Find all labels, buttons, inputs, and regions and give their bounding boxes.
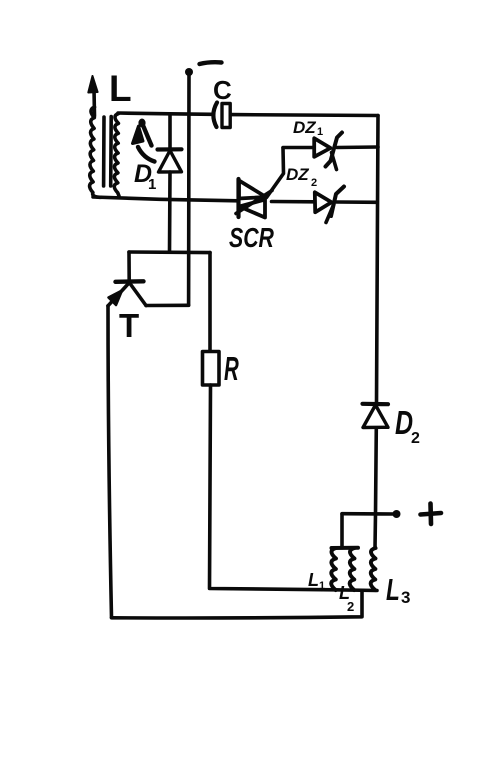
wire: main rail (SCR to DZ2)	[272, 200, 315, 204]
svg-text:2: 2	[347, 599, 354, 614]
svg-text:1: 1	[148, 176, 156, 193]
wire: right vertical (D2 to L3)	[375, 428, 376, 548]
svg-text:SCR: SCR	[229, 222, 274, 254]
transistor T	[108, 252, 146, 306]
transformer L: core	[102, 117, 106, 186]
wire: right vertical (top corner to D2)	[377, 116, 379, 404]
transformer L: primary winding	[90, 107, 101, 197]
wire: bottom return line	[112, 591, 363, 618]
wire: top rail right (capacitor to right corner)	[231, 113, 378, 118]
inductor L2	[350, 548, 355, 590]
zener DZ1	[314, 133, 342, 170]
wire: R bottom lead and coil bottom bar	[210, 385, 378, 591]
transformer L: primary winding arrow	[92, 89, 96, 116]
wire: emitter vertical	[108, 306, 112, 618]
transformer L: secondary winding	[114, 114, 119, 197]
resistor R	[203, 352, 220, 386]
svg-text:T: T	[119, 307, 139, 344]
inductor L3	[371, 548, 376, 590]
wire: plus line	[342, 512, 396, 516]
diode D2	[363, 404, 389, 428]
SCR	[236, 179, 272, 218]
wire: D1 lead down to base line	[168, 172, 172, 252]
annotation arrow near D1	[133, 119, 155, 162]
svg-text:R: R	[224, 350, 239, 387]
svg-text:2: 2	[411, 430, 420, 447]
svg-text:3: 3	[401, 588, 410, 607]
wire: DZ1 rail right	[337, 145, 378, 149]
negative terminal dot	[185, 68, 193, 76]
svg-text:DZ: DZ	[286, 165, 309, 184]
wire: main rail (transformer bottom through SCR area)	[93, 197, 238, 201]
diode D1	[158, 114, 182, 172]
svg-text:2: 2	[311, 177, 317, 189]
wire: base line corner down to R	[208, 253, 212, 352]
wire: main rail (DZ2 to right vertical)	[337, 200, 377, 204]
zener DZ2	[315, 187, 344, 223]
label minus	[200, 62, 222, 64]
inductor L1	[331, 548, 336, 590]
positive terminal dot	[393, 510, 401, 518]
wire: top rail left (transformer to capacitor)	[118, 113, 211, 114]
capacitor C	[213, 103, 217, 128]
wire: coil top bar	[332, 546, 359, 550]
svg-text:1: 1	[317, 126, 323, 138]
wire: collector line	[146, 303, 189, 307]
svg-text:L: L	[109, 68, 132, 109]
svg-text:DZ: DZ	[293, 118, 316, 137]
wire: DZ1 rail left	[283, 146, 314, 150]
svg-text:1: 1	[319, 580, 325, 592]
label plus	[421, 504, 442, 525]
svg-text:L: L	[308, 570, 319, 590]
svg-text:L: L	[386, 571, 400, 606]
wire: SCR gate riser	[267, 148, 284, 198]
wire: plus riser to coil top bar	[340, 514, 344, 548]
wire: base line of T network	[129, 250, 210, 254]
svg-text:C: C	[213, 75, 232, 105]
wire: negative terminal stem	[187, 74, 191, 305]
